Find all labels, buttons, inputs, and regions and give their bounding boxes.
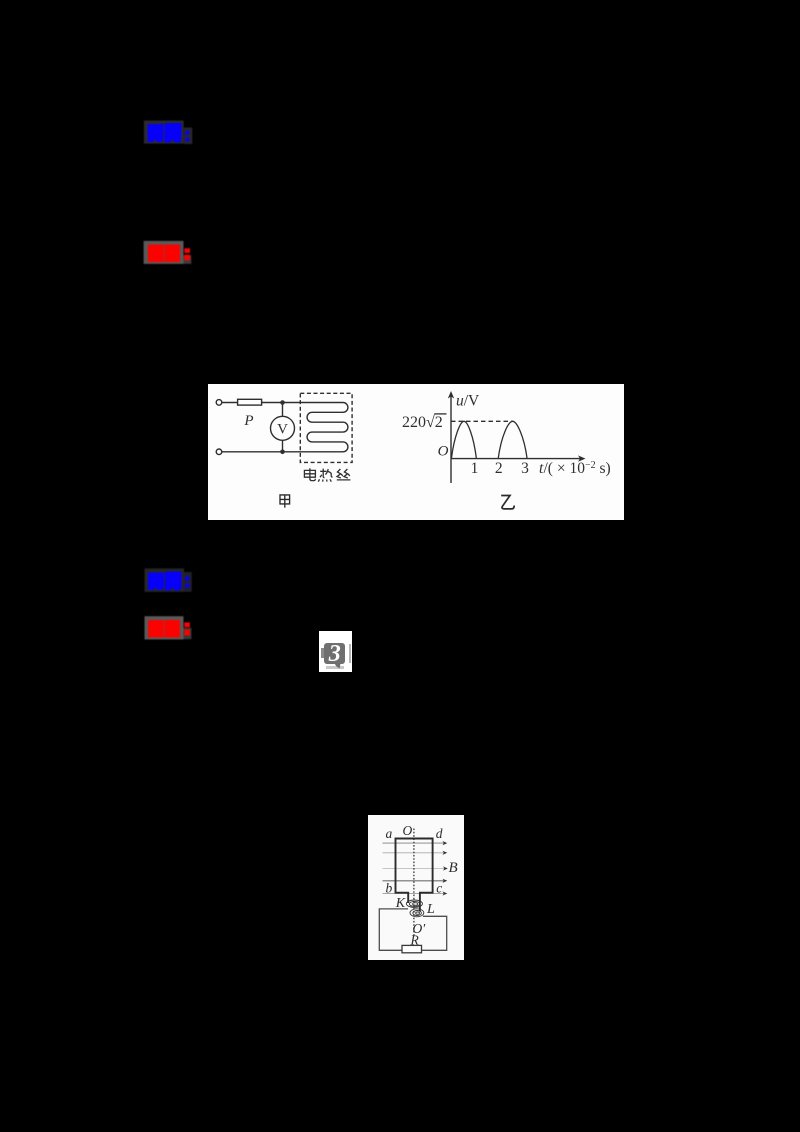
svg-text:a: a (386, 826, 393, 841)
svg-text:O: O (403, 823, 413, 838)
svg-text:L: L (426, 902, 435, 917)
svg-text:R: R (410, 933, 420, 948)
svg-text:c: c (436, 881, 442, 896)
svg-text:2: 2 (495, 460, 503, 477)
svg-text:1: 1 (471, 460, 479, 477)
svg-text:V: V (277, 421, 288, 437)
svg-text:2: 2 (435, 414, 443, 431)
svg-text:√: √ (426, 414, 435, 431)
svg-text:220: 220 (402, 414, 426, 431)
svg-text:/( × 10−2 s): /( × 10−2 s) (544, 460, 611, 477)
svg-text:K: K (395, 896, 406, 911)
svg-text:u/V: u/V (456, 392, 480, 409)
svg-text:P: P (243, 413, 253, 429)
svg-text:O: O (438, 443, 449, 459)
svg-text:d: d (436, 826, 443, 841)
svg-text:B: B (449, 860, 458, 876)
svg-text:b: b (386, 881, 393, 896)
svg-text:3: 3 (521, 460, 529, 477)
